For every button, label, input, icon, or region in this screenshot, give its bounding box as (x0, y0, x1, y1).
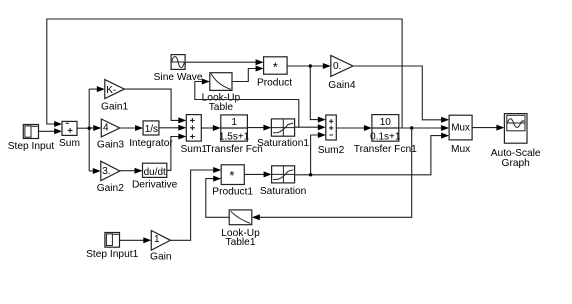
svg-text:1: 1 (154, 234, 160, 245)
block Saturation (272, 166, 295, 183)
svg-text:1/s: 1/s (145, 124, 158, 135)
svg-text:0.1s+1: 0.1s+1 (370, 131, 401, 142)
svg-text:Gain: Gain (150, 252, 172, 263)
block Sine Wave (171, 55, 185, 70)
block Product1 (221, 165, 244, 185)
wire Gain3 to Integrator (120, 125, 143, 131)
wire Saturation output to Mux input 3 (295, 133, 450, 175)
svg-text:4: 4 (103, 123, 109, 134)
svg-text:Gain3: Gain3 (97, 140, 125, 151)
svg-text:du/dt: du/dt (144, 167, 166, 178)
svg-text:K-: K- (106, 85, 116, 96)
wire Derivative to Sum1 input 3 (167, 134, 187, 171)
svg-text:1: 1 (231, 117, 237, 128)
junction at Sum output (88, 127, 91, 130)
svg-text:Step Input: Step Input (8, 141, 55, 152)
wire Product to Gain4 with branch down to Sum2 input 1 (287, 63, 331, 123)
svg-text:0.: 0. (333, 61, 341, 72)
block Look-Up Table1 (229, 210, 252, 225)
block Step Input (23, 125, 38, 139)
svg-text:10: 10 (380, 117, 392, 128)
svg-text:*: * (273, 60, 278, 75)
svg-text:Table: Table (209, 102, 234, 113)
block Sum (62, 121, 77, 135)
block Saturation1 (271, 119, 294, 136)
svg-text:*: * (229, 168, 234, 183)
wire Sine Wave to Product input 1 (185, 59, 264, 65)
block Derivative (143, 163, 167, 178)
svg-text:Table1: Table1 (225, 237, 255, 248)
block Transfer Fcn1 (370, 115, 401, 143)
wire Product1 to Saturation (244, 171, 271, 177)
wire Gain to Product1 input 1 (170, 167, 221, 240)
junction at Saturation output (309, 173, 312, 176)
wire Gain2 to Derivative (120, 168, 143, 174)
gain Gain4 (331, 55, 353, 76)
block Transfer Fcn (219, 115, 250, 142)
block Auto-Scale Graph (504, 114, 527, 144)
svg-text:Sum2: Sum2 (318, 145, 345, 156)
block Step Input1 (105, 233, 120, 248)
svg-text:Derivative: Derivative (132, 180, 178, 191)
gain Gain1 (105, 80, 125, 99)
wire Saturation output feedback up to Sum2 input 3 (311, 132, 326, 175)
wire Mux to Auto-Scale Graph (472, 125, 504, 131)
wire Look-Up Table to Product input 2 (232, 66, 264, 82)
wire Sum output to junction and three gains (77, 86, 105, 174)
wire Saturation1 output feedback to Look-Up Table (195, 79, 299, 128)
junction at Product output (309, 64, 312, 67)
wire Transfer Fcn1 to Mux input 2 (399, 125, 449, 131)
gain Gain (151, 231, 170, 251)
svg-text:Gain1: Gain1 (101, 101, 129, 112)
wire Integrator to Sum1 input 2 (159, 125, 186, 131)
svg-text:Gain4: Gain4 (328, 80, 356, 91)
wire Saturation1 to Sum2 input 2 (295, 124, 326, 130)
svg-text:Transfer Fcn1: Transfer Fcn1 (354, 144, 417, 155)
block Mux (449, 115, 472, 140)
svg-text:Step Input1: Step Input1 (86, 249, 138, 260)
svg-text:Gain2: Gain2 (97, 183, 125, 194)
wire Gain4 to Mux input 1 (353, 66, 449, 123)
svg-text:Sum: Sum (59, 138, 80, 149)
wire Step Input to Sum (39, 128, 63, 134)
gain Gain3 (101, 119, 120, 137)
svg-text:Product: Product (257, 78, 292, 89)
svg-text:Mux: Mux (451, 144, 470, 155)
wire Sum2 to Transfer Fcn1 (336, 125, 372, 131)
block Product (264, 57, 288, 75)
wire Gain1 to Sum1 input 1 (124, 89, 186, 123)
block Look-Up Table (210, 73, 232, 91)
svg-text:Sum1: Sum1 (180, 144, 207, 155)
svg-text:Saturation: Saturation (260, 186, 306, 197)
junction at Transfer Fcn1 output (410, 126, 413, 129)
svg-text:Transfer Fcn: Transfer Fcn (205, 144, 262, 155)
block Integrator (143, 121, 159, 135)
block Sum2 (326, 115, 337, 140)
wire Transfer Fcn to Saturation1 (247, 125, 271, 131)
svg-text:Integrator: Integrator (129, 138, 173, 149)
svg-text:Saturation1: Saturation1 (257, 138, 309, 149)
svg-text:Graph: Graph (502, 158, 530, 169)
wire top feedback from Transfer Fcn1 output up and across to Sum minus input (47, 19, 402, 128)
block Sum1 (186, 115, 201, 142)
wire Look-Up Table1 to Product1 input 2 (206, 176, 229, 218)
svg-text:1.5s+1: 1.5s+1 (219, 131, 250, 142)
svg-text:Product1: Product1 (212, 187, 253, 198)
svg-text:Mux: Mux (451, 122, 470, 133)
wire Transfer Fcn1 output down to Look-Up Table1 (252, 128, 412, 220)
wire Step Input1 to Gain (120, 237, 152, 243)
gain Gain2 (101, 161, 120, 181)
svg-text:3.: 3. (102, 166, 110, 177)
wire Sum1 to Transfer Fcn (201, 125, 221, 131)
